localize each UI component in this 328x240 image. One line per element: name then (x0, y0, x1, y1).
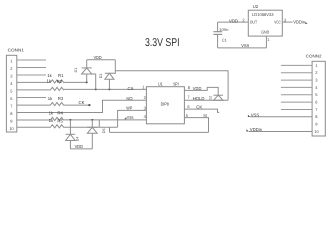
svg-text:VDDin: VDDin (293, 20, 305, 25)
svg-text:SO: SO (126, 96, 133, 101)
wire CONN1 pin9 to R4 (17, 119, 49, 121)
wire U2 GND pin 1 drop (265, 36, 267, 48)
node junction diode D3 leg on CS net (108, 88, 110, 90)
svg-text:VSS: VSS (241, 43, 249, 48)
wire CK net: U1 pin6 jog down (184, 109, 219, 112)
wire bottom rail (110, 131, 209, 133)
wire CONN1 pin3 stub (17, 74, 46, 76)
diode D5 clamp (87, 120, 106, 149)
capacitor C1 (213, 22, 228, 48)
IC U1 DIP8 socket (142, 81, 191, 123)
connector CONN2 (306, 53, 326, 136)
node junction diode D5 on VSS net (91, 119, 93, 121)
svg-text:VSS: VSS (127, 115, 134, 120)
node junction diode D4 on VSS net (69, 119, 71, 121)
power VDD rail top (87, 55, 116, 60)
connector CONN1 (6, 48, 24, 132)
wire CONN1 pin7 to R3 (17, 104, 49, 106)
svg-text:100n: 100n (219, 27, 228, 32)
wire CONN1 pin1 stub (17, 59, 46, 61)
wire CONN1 pin10 to R5 (17, 126, 49, 128)
resistor R3 (48, 96, 64, 106)
wire CONN2 pin1 stub (281, 64, 312, 66)
wire SI net: U1 pin5 to rail (184, 118, 208, 133)
svg-text:3.3V SPI: 3.3V SPI (145, 37, 180, 49)
svg-text:R5: R5 (57, 118, 63, 123)
diode D1 clamp (74, 60, 92, 84)
svg-text:CK: CK (79, 100, 85, 105)
wire diode D1 anode jog to CS net (92, 74, 96, 89)
diode D2 (209, 95, 223, 100)
svg-text:GND: GND (261, 30, 269, 35)
wire R5 to WP riser (64, 126, 118, 128)
wire rail left tie to R5 line (109, 127, 111, 132)
diode D4 clamp (66, 120, 80, 149)
wire CK stub from R3 (64, 104, 89, 106)
wire CONN2 pin5 stub (281, 94, 312, 96)
node CK stub end dot (88, 104, 90, 106)
svg-text:CONN2: CONN2 (306, 53, 323, 58)
svg-text:SI: SI (203, 113, 207, 118)
wire CONN2 pin4 stub (281, 86, 312, 88)
wire VDD to U2 OUT pin 2 (218, 21, 249, 23)
wire CONN1 pin4 to R1 (17, 81, 49, 83)
IC U2 regulator LD1086V33 (248, 4, 282, 36)
svg-text:CK: CK (196, 105, 202, 110)
svg-text:D5: D5 (102, 128, 106, 133)
svg-text:SPI: SPI (173, 81, 179, 86)
wire VSS net under U2 (218, 47, 267, 49)
node junction diode D1 leg on CS net (95, 88, 97, 90)
wire SO net: CONN1 pin8 to U1 pin2 (17, 100, 147, 112)
wire VDD net: U1 pin8 to diode D2 (184, 87, 218, 95)
svg-text:R4: R4 (57, 111, 63, 116)
wire VSS net: R4 to U1 pin4 (64, 119, 147, 121)
svg-text:CS: CS (128, 86, 134, 91)
svg-text:VCC: VCC (274, 20, 281, 25)
wire HOLD tie to VDD rail (115, 71, 228, 101)
resistor R5 (49, 118, 64, 128)
wire R1 to diode D1 anode (64, 81, 88, 83)
svg-text:WP: WP (126, 106, 132, 111)
wire CONN2 pin3 stub (281, 79, 312, 81)
svg-text:LD1086V33: LD1086V33 (252, 12, 274, 17)
wire CONN1 pin2 stub (17, 67, 46, 69)
svg-text:C1: C1 (222, 38, 228, 43)
node VSS label with flag (124, 115, 133, 120)
svg-text:VDD: VDD (229, 18, 238, 23)
node VDDin net label with flag (293, 20, 307, 25)
svg-text:10: 10 (9, 126, 14, 131)
wire VDDin net to CONN2 pin10 (246, 127, 312, 132)
resistor R1 (47, 73, 64, 83)
wire CS net: R2 to U1 pin1 (64, 88, 147, 90)
wire WP riser to U1 pin3 (118, 110, 147, 127)
wire CONN2 pin2 stub (281, 72, 312, 74)
svg-text:R3: R3 (58, 96, 64, 101)
svg-text:HOLD: HOLD (193, 96, 205, 101)
resistor R2 (47, 79, 65, 91)
svg-text:VDD: VDD (75, 144, 84, 149)
wire CONN2 pin7 stub (281, 109, 312, 111)
svg-text:VDD: VDD (193, 86, 202, 91)
power VDD net label bottom (70, 144, 92, 149)
resistor R4 (49, 111, 64, 121)
svg-text:U1: U1 (158, 81, 163, 86)
wire HOLD net: U1 pin7 through D2 anode to riser (184, 99, 228, 101)
svg-text:CONN1: CONN1 (8, 48, 25, 53)
svg-text:DIP8: DIP8 (161, 102, 170, 107)
wire CONN2 pin6 stub (281, 101, 312, 103)
svg-text:R2: R2 (57, 79, 63, 84)
wire CONN1 pin6 stub (17, 97, 46, 99)
wire VSS net to CONN2 pin8 (248, 113, 312, 118)
wire U2 VCC pin 3 to VDDin (282, 21, 292, 23)
diode D3 clamp (99, 60, 115, 90)
svg-text:R1: R1 (58, 73, 64, 78)
svg-text:U2: U2 (253, 4, 259, 9)
svg-text:OUT: OUT (250, 20, 258, 25)
svg-text:10: 10 (314, 129, 319, 134)
svg-text:D4: D4 (75, 137, 79, 142)
svg-text:D1: D1 (74, 68, 78, 73)
wire R5 line tie to VSS line (98, 120, 100, 127)
wire CONN1 pin5 to R2 (17, 89, 49, 91)
svg-text:D3: D3 (99, 74, 103, 79)
